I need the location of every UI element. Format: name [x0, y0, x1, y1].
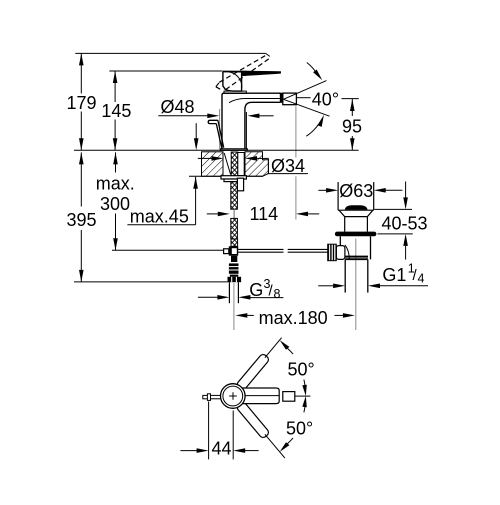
svg-text:40-53: 40-53	[382, 214, 428, 234]
pull rod guide below nut	[237, 178, 243, 191]
svg-text:4: 4	[418, 272, 425, 286]
centerline drain / max180 right extension	[355, 239, 357, 331]
spray angle line upper	[283, 81, 326, 100]
supply pipe	[229, 282, 238, 303]
top view: center cross	[229, 392, 237, 400]
dimension Ø48	[158, 97, 273, 118]
50deg extension line upper	[265, 338, 282, 358]
pop-up waste flange	[338, 182, 374, 210]
svg-text:300: 300	[100, 194, 130, 214]
dimension max180	[235, 308, 355, 328]
mounting deck line	[74, 149, 359, 151]
svg-text:95: 95	[342, 117, 362, 137]
spray angle arc arrow upper	[307, 63, 323, 81]
drain tailpipe	[345, 260, 368, 293]
o-ring seal band	[335, 232, 377, 237]
pop-up pull knob	[208, 120, 224, 149]
50deg lower arc arrows	[280, 396, 307, 452]
reference line lever height 145	[109, 70, 222, 72]
deck hatch right block with step	[245, 152, 268, 177]
40 degree tick from aerator	[296, 97, 310, 99]
top view: body circle outer	[221, 384, 246, 409]
dimension 395	[67, 152, 97, 282]
clamp block	[224, 246, 239, 255]
G3/8 nut	[228, 275, 242, 283]
svg-text:max.45: max.45	[130, 207, 189, 227]
svg-text:395: 395	[67, 210, 97, 230]
spray angle arc arrow lower	[306, 115, 324, 136]
aerator end cap (solid)	[280, 93, 283, 103]
40deg leader line	[342, 98, 359, 100]
faucet body column and spout arm	[222, 93, 280, 149]
50deg extension line lower	[265, 434, 285, 458]
dimension 179	[67, 53, 97, 150]
mounting nut	[224, 179, 243, 182]
centerline supply pipe / max180 left extension	[233, 283, 235, 330]
svg-text:G1: G1	[382, 265, 406, 285]
lever blade raised (dashed)	[216, 55, 270, 90]
quick coupling	[229, 263, 239, 273]
dimension max300	[96, 152, 135, 250]
raised lever tip tick	[266, 53, 270, 56]
svg-text:50°: 50°	[286, 419, 313, 439]
svg-text:8: 8	[274, 287, 281, 301]
svg-text:114: 114	[250, 204, 279, 224]
svg-text:Ø63: Ø63	[339, 181, 373, 201]
horizontal pop-up rod right segment	[288, 249, 328, 252]
dimension 44	[180, 402, 258, 460]
centerline spout outlet (114 extension)	[295, 106, 297, 157]
reference line top (raised lever height 179)	[75, 52, 265, 54]
mounting washer	[221, 176, 246, 179]
dimension max45	[127, 123, 198, 226]
deck hatch left block	[202, 152, 224, 177]
dimension G3/8	[198, 277, 284, 301]
horizontal pop-up rod left segment	[238, 249, 284, 252]
pop-up rod dimension line (max300)	[112, 249, 223, 251]
stub below clamp	[231, 256, 237, 262]
waste neck cone	[339, 210, 373, 231]
top view: centerline right	[295, 395, 311, 397]
rod end above clamp	[231, 239, 238, 246]
dimension 40-53	[375, 182, 428, 260]
faucet base plate	[221, 149, 248, 151]
svg-text:max.180: max.180	[259, 308, 328, 328]
rod break centerline	[233, 209, 235, 218]
knurled adjusting knob	[328, 244, 337, 261]
lever blade (solid)	[223, 71, 242, 73]
dimension Ø34	[198, 156, 308, 176]
centerline faucet body Ø48 left extension	[219, 109, 221, 150]
spray angle line lower	[283, 99, 329, 116]
top view: body circle inner	[223, 386, 243, 406]
pop-up plug lens	[345, 205, 368, 209]
pull rod tube in deck	[238, 153, 244, 176]
svg-text:Ø34: Ø34	[271, 156, 305, 176]
waste body	[340, 236, 370, 259]
reference line bottom of supply connection (395)	[74, 281, 228, 283]
svg-text:179: 179	[67, 93, 97, 113]
top view: lever upper 50deg	[236, 353, 270, 391]
cartridge ring	[224, 91, 246, 93]
deck underside line	[189, 175, 263, 177]
svg-text:G: G	[249, 280, 263, 300]
aerator box	[283, 93, 297, 105]
dimension 114	[207, 204, 319, 224]
threaded pull rod lower	[231, 218, 238, 239]
lever socket on waste	[336, 246, 345, 260]
hole chamfer line	[224, 153, 230, 175]
top view: lever lower 50deg	[236, 401, 270, 439]
50deg upper arc arrows	[280, 340, 307, 396]
dimension Ø63	[318, 181, 402, 201]
svg-text:40°: 40°	[312, 90, 339, 110]
top view: pull knob	[203, 394, 222, 401]
svg-text:Ø48: Ø48	[161, 97, 195, 117]
threaded shank in deck	[231, 152, 238, 176]
svg-text:145: 145	[101, 101, 131, 121]
dimension G1 1/4	[318, 261, 428, 288]
svg-text:50°: 50°	[288, 359, 315, 379]
lever handle hub	[223, 72, 242, 92]
svg-text:44: 44	[212, 439, 232, 459]
dimension 145	[101, 71, 131, 150]
top view: aerator block	[283, 392, 295, 402]
dimension 95	[342, 99, 362, 150]
top view: spout/lever center	[239, 388, 279, 404]
svg-text:max.: max.	[96, 174, 135, 194]
threaded pull rod upper	[231, 182, 238, 210]
